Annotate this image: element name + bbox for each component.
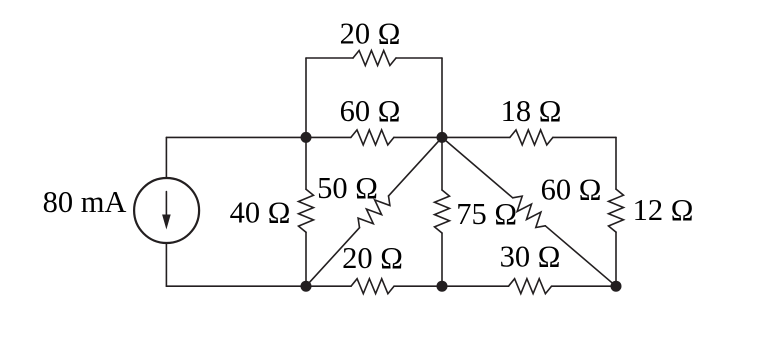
svg-text:30 Ω: 30 Ω [500, 240, 561, 274]
svg-text:12 Ω: 12 Ω [633, 193, 694, 227]
svg-text:75 Ω: 75 Ω [456, 197, 517, 231]
svg-text:80 mA: 80 mA [43, 185, 127, 219]
svg-text:60 Ω: 60 Ω [340, 94, 401, 128]
svg-text:40 Ω: 40 Ω [230, 196, 291, 230]
svg-text:18 Ω: 18 Ω [501, 94, 562, 128]
svg-text:60 Ω: 60 Ω [541, 173, 602, 207]
svg-text:50 Ω: 50 Ω [317, 171, 378, 205]
svg-text:20 Ω: 20 Ω [340, 16, 401, 50]
svg-text:20 Ω: 20 Ω [342, 241, 403, 275]
